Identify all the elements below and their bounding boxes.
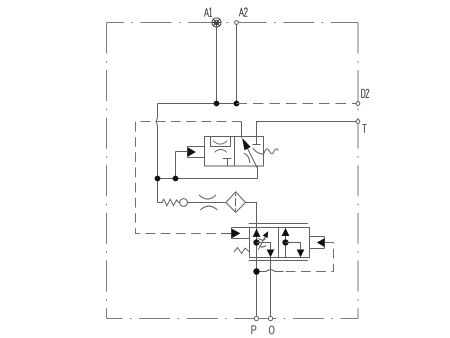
V2 right pilot actuator: [310, 237, 325, 249]
U1 throttle arcs: [244, 153, 250, 163]
valve V2 body: [250, 228, 310, 258]
wire pilot drop to valve U1: [241, 122, 243, 138]
wire filter to valve V2: [246, 203, 257, 228]
junction output/pilot riser: [173, 176, 179, 182]
filter F1: [226, 192, 246, 213]
V2 right down arrow: [297, 250, 305, 258]
blocked port bar in valve U1: [253, 144, 261, 146]
junction P sense: [253, 268, 259, 274]
label A1: [204, 8, 212, 16]
wire left trunk (with jog at dashed crossing): [156, 104, 157, 203]
wire U1 output: [158, 166, 258, 179]
flow regulator valve U1 body: [205, 137, 264, 167]
spring of V2: [234, 248, 250, 254]
V2 right path: [286, 243, 301, 250]
wire to filter: [188, 202, 226, 204]
dashed pilot sense line: [284, 243, 334, 272]
pilot actuator of U1: [188, 147, 205, 158]
U1 metering orifice rect: [211, 137, 231, 147]
U1 arc below: [215, 150, 227, 153]
V2 right up arrow line: [285, 228, 287, 257]
junction at A1 line: [214, 101, 220, 107]
V2 left pilot actuator: [232, 228, 250, 239]
check valve ball: [180, 199, 188, 207]
junction output/trunk: [155, 176, 161, 182]
label P: [252, 326, 256, 334]
spring of U1: [264, 149, 279, 154]
V2 left up arrow: [253, 229, 261, 237]
wire O channel: [270, 258, 272, 319]
junction at A2 line: [234, 101, 240, 107]
label A2: [239, 8, 247, 16]
junction V2 right: [282, 239, 288, 245]
wire T: [257, 122, 357, 145]
V2 throttle arcs: [259, 238, 266, 240]
wire A1 down: [216, 27, 218, 103]
valve block boundary (dash-dot enclosure): [107, 22, 359, 24]
port D2: [356, 102, 360, 106]
label D2: [362, 89, 370, 97]
port A2: [235, 21, 239, 25]
wire pilot riser: [175, 152, 177, 179]
dashed pilot line to valve V2: [136, 122, 242, 234]
junction V2 left: [253, 239, 259, 245]
nozzle arcs: [199, 195, 216, 199]
pilot line hop over O: [257, 270, 284, 272]
U1 throttle diagonal arrow: [245, 142, 258, 168]
wire pilot feed U1: [176, 151, 188, 153]
wire A2 down: [236, 24, 238, 103]
V2 left throttle path: [257, 243, 271, 250]
V2 throttle diagonal arrow: [258, 236, 265, 250]
U1 blocked drain symbol: [223, 159, 232, 167]
wire node row: [158, 103, 237, 105]
dashed wire to D2: [237, 103, 357, 105]
label T: [362, 125, 366, 133]
check valve spring: [158, 199, 180, 206]
label O: [269, 326, 274, 334]
wire P channel: [256, 203, 258, 319]
port P: [254, 316, 258, 320]
port T: [356, 120, 360, 124]
port O: [268, 316, 272, 320]
V2 left down arrow: [267, 250, 275, 258]
U1 venturi curve: [213, 141, 227, 144]
valve V2 proportional lines: [249, 224, 308, 261]
port A1 (plugged, crossed circle): [212, 18, 221, 27]
